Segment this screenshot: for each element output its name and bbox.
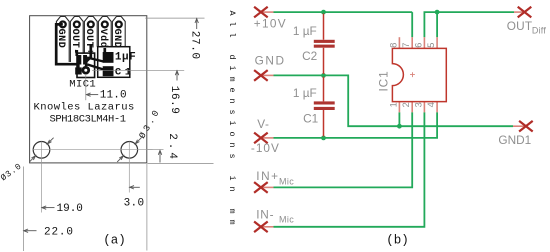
hole centerline horizontal [33, 149, 153, 151]
svg-text:OUT-: OUT- [69, 29, 80, 55]
dimension 3.0 [130, 186, 140, 189]
IC1 pin stub 6 [423, 37, 425, 48]
svg-text:C2: C2 [302, 49, 317, 63]
pad P4 Vdd [98, 17, 111, 47]
net GND wire [274, 75, 514, 126]
svg-text:2.4: 2.4 [166, 133, 178, 162]
svg-text:3.0: 3.0 [124, 198, 145, 210]
extension line 22.0 left [22, 167, 24, 252]
IC1 pin stub 3 [423, 102, 425, 113]
IC1 pin stub 1 [398, 102, 400, 113]
svg-text:IN-: IN- [256, 207, 274, 221]
svg-text:6: 6 [413, 43, 423, 48]
net IN- wire [274, 112, 425, 227]
svg-text:8: 8 [388, 43, 398, 48]
junction V- / C1 [321, 136, 326, 141]
mounting hole left [33, 142, 50, 159]
pin IN- [261, 226, 274, 228]
supply pin +10V [261, 11, 274, 13]
pad P2 OUT- [70, 17, 83, 63]
svg-text:(a): (a) [103, 233, 126, 247]
svg-text:OUT+: OUT+ [83, 29, 94, 55]
IC1 origin cross [410, 72, 415, 77]
svg-text:16.9: 16.9 [168, 86, 180, 115]
mic hole pad [83, 67, 89, 73]
capacitor C2 leads [323, 14, 325, 75]
X mark +10V [254, 7, 268, 18]
svg-text:3: 3 [413, 102, 423, 107]
mic centerline [85, 74, 87, 100]
extension line 16.9 top [92, 69, 184, 71]
mounting hole right [121, 142, 138, 159]
board outline [30, 16, 147, 163]
dimension 27.0 [195, 19, 198, 29]
extension line bottom right [147, 163, 213, 165]
svg-text:11.0: 11.0 [100, 90, 127, 102]
dimension 11.0 [86, 93, 98, 96]
svg-text:1: 1 [388, 102, 398, 107]
svg-text:GND1: GND1 [498, 133, 531, 147]
svg-text:19.0: 19.0 [57, 203, 83, 215]
junction GND / C2-C1 [321, 73, 326, 78]
pin IN+ [261, 186, 274, 188]
capacitor C2 plates [314, 40, 335, 43]
svg-text:IN+: IN+ [256, 169, 280, 183]
trace mic to C1 bottom [88, 65, 104, 70]
mic pad lower-left [75, 67, 82, 74]
svg-text:C1: C1 [115, 67, 135, 79]
svg-text:1µF: 1µF [115, 51, 136, 63]
net +10V wire [274, 12, 413, 37]
dimension 19.0 [42, 206, 55, 209]
op-amp IC1 body [392, 48, 446, 101]
svg-text:4: 4 [426, 102, 436, 107]
svg-text:MIC1: MIC1 [69, 79, 96, 91]
IC1 pin stub 4 [436, 102, 438, 113]
svg-text:5: 5 [426, 43, 436, 48]
leader arrow left hole upper-right [47, 138, 53, 144]
svg-text:All dimensions in mm: All dimensions in mm [227, 11, 237, 231]
svg-text:Ø3.0: Ø3.0 [0, 161, 24, 183]
svg-text:+10V: +10V [254, 17, 287, 31]
dimension 2.4 [158, 150, 161, 162]
net V- wire [274, 112, 438, 138]
extension line right long [146, 164, 148, 251]
svg-text:GND: GND [255, 54, 286, 68]
dimension 22.0 [24, 229, 37, 232]
svg-text:C1: C1 [303, 112, 318, 126]
wire pin1 riser [398, 112, 400, 126]
trace OUT+ pad3 to mic [86, 45, 91, 66]
pin OUT [514, 11, 525, 13]
svg-text:Ø3.0: Ø3.0 [137, 106, 162, 140]
supply pin V- [261, 137, 274, 139]
capacitor C1 plates [314, 101, 335, 104]
X mark IN- [254, 222, 268, 233]
extension line top right [145, 17, 204, 19]
trace GND pad1 to mic [56, 24, 78, 68]
IC1 pin stub 5 [436, 37, 438, 48]
pad P1 GND [56, 17, 69, 63]
net OUT wire [424, 12, 514, 37]
svg-text:(b): (b) [386, 233, 409, 247]
svg-text:V-: V- [257, 117, 269, 131]
junction OUT pins 5-6 [435, 10, 440, 15]
svg-text:27.0: 27.0 [189, 31, 201, 60]
net IN+ wire [274, 112, 413, 187]
IC1 pin stub 2 [411, 102, 413, 113]
pin GND1 [513, 125, 526, 127]
leader arrow left hole lower-left [29, 156, 35, 162]
supply pin GND [261, 74, 274, 76]
IC1 pin stub 7 [411, 37, 413, 48]
X mark IN+ [254, 182, 268, 193]
svg-text:OUT: OUT [507, 19, 533, 33]
svg-text:22.0: 22.0 [44, 227, 74, 239]
trace OUT- pad2 to mic [75, 50, 78, 56]
leader arrow right hole upper-right [135, 138, 141, 144]
svg-text:SPH18C3LM4H-1: SPH18C3LM4H-1 [50, 114, 126, 126]
svg-text:IC1: IC1 [377, 70, 391, 91]
X mark V- [254, 133, 268, 144]
X mark OUT [518, 7, 532, 18]
C1 pad top [103, 52, 114, 63]
svg-text:2: 2 [401, 102, 411, 107]
junction GND / pin1 [397, 124, 402, 129]
hole centerline left vertical [41, 142, 43, 213]
X mark GND [254, 70, 268, 81]
mic MIC1 outline [77, 53, 95, 77]
svg-text:Mic: Mic [279, 177, 294, 187]
svg-text:Vdd: Vdd [97, 29, 109, 49]
extension line centerline right [147, 149, 163, 151]
svg-text:1 µF: 1 µF [293, 86, 317, 100]
junction +10V / C2 [321, 10, 326, 15]
X mark GND1 [519, 121, 533, 132]
dimension 16.9 [175, 71, 178, 81]
capacitor C1 leads [323, 77, 325, 137]
C1 pad bottom [103, 66, 114, 76]
trace mic to C1 top [87, 58, 104, 62]
capacitor C1 outline (pcb) [98, 47, 130, 78]
svg-text:Diff: Diff [532, 25, 546, 35]
svg-text:Mic: Mic [279, 215, 294, 225]
pad P3 OUT+ [84, 17, 97, 54]
trace Vdd pad4 to C1 [103, 48, 106, 53]
mic pad left [78, 55, 82, 65]
svg-text:-10V: -10V [251, 141, 280, 155]
leader arrow right hole lower-left [117, 156, 123, 162]
svg-text:Knowles Lazarus: Knowles Lazarus [34, 102, 135, 114]
svg-text:1 µF: 1 µF [293, 24, 317, 38]
svg-text:GND: GND [111, 29, 122, 49]
svg-text:7: 7 [401, 43, 411, 48]
IC1 pin stub 8 [398, 37, 400, 48]
hole centerline right vertical [128, 142, 130, 193]
pad P5 GND [112, 17, 125, 47]
mic pad right [83, 55, 87, 65]
